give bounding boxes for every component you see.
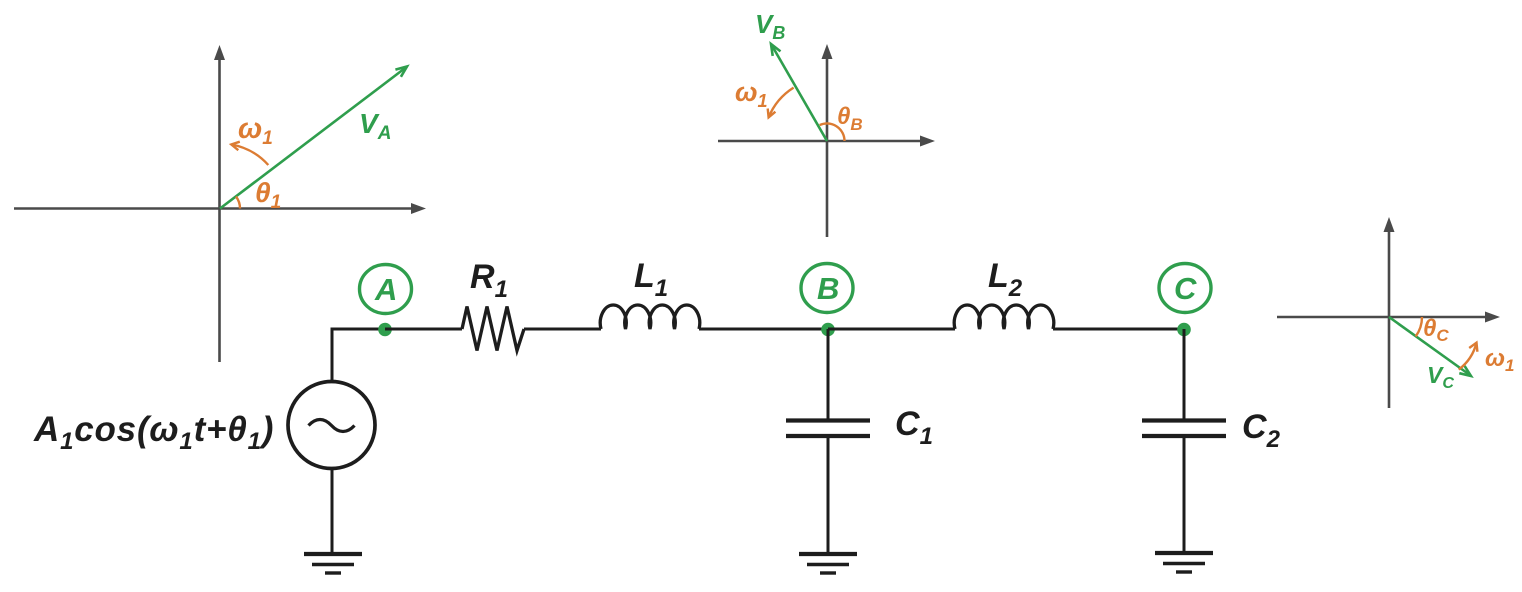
phasor diagram B: vector V_B (771, 44, 827, 141)
phasor diagram A: theta_1 angle arc (236, 197, 240, 209)
wire node C down to capacitor C2 (1183, 329, 1186, 420)
phasor diagram A: omega_1 rotation arc (231, 142, 268, 165)
phasor diagram B: theta_B angle arc (820, 123, 845, 141)
node C circled label (1159, 264, 1211, 313)
wire resistor R1 to inductor L1 (524, 328, 601, 331)
phasor diagram B: vertical axis (822, 44, 833, 237)
wire from AC source bottom to ground (331, 468, 334, 554)
node B dot (821, 323, 835, 337)
phasor diagram A: vertical axis (214, 45, 225, 362)
AC source V1 (288, 382, 375, 469)
inductor L2 (954, 305, 1053, 329)
wire capacitor C2 to ground (1183, 436, 1186, 553)
wire inductor L1 to node B (699, 328, 828, 331)
phasor diagram C: vertical axis (1384, 217, 1395, 408)
ground below AC source (304, 554, 362, 573)
wire capacitor C1 to ground (827, 436, 830, 554)
phasor diagram A: vector V_A (220, 67, 407, 209)
wire node B down to capacitor C1 (827, 329, 830, 420)
ground below capacitor C1 (799, 554, 857, 573)
svg-text:A: A (374, 272, 397, 307)
capacitor C1 (786, 421, 870, 437)
phasor diagram C: omega_1 rotation arc (1459, 343, 1478, 370)
inductor L1 (600, 305, 699, 329)
ground below capacitor C2 (1155, 553, 1213, 572)
capacitor C2 (1142, 421, 1226, 437)
wire inductor L2 to node C (1053, 328, 1184, 331)
phasor diagram C: theta_C angle arc (1416, 317, 1422, 336)
svg-text:B: B (817, 271, 839, 306)
svg-text:C: C (1174, 271, 1197, 306)
node A dot (378, 323, 392, 337)
phasor diagram A: horizontal axis (14, 203, 426, 214)
node B circled label (801, 264, 853, 313)
node C dot (1177, 323, 1191, 337)
phasor diagram C: horizontal axis (1277, 312, 1500, 323)
phasor diagram B: horizontal axis (718, 136, 935, 147)
phasor diagram B: omega_1 rotation arc (768, 88, 794, 118)
wire node A to resistor R1 (385, 328, 462, 331)
resistor R1 (462, 307, 524, 351)
node A circled label (360, 265, 412, 314)
wire node B to inductor L2 (828, 328, 955, 331)
wire from AC source top to node A (332, 329, 385, 382)
phasor diagram C: vector V_C (1389, 317, 1471, 376)
